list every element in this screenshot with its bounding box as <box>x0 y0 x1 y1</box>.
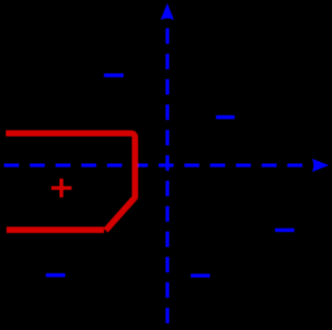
minus sign, first quadrant <box>216 115 235 119</box>
red plus sign <box>51 179 71 198</box>
red contour: top line, corner, vertical, diagonal <box>6 133 135 230</box>
real (horizontal) axis, dashed <box>4 164 306 168</box>
minus sign, fourth quadrant right <box>275 228 294 232</box>
red contour: bottom line <box>7 227 105 233</box>
minus sign, second quadrant <box>104 73 124 77</box>
arrowhead, right of horizontal axis <box>312 159 329 172</box>
arrowhead, top of vertical axis <box>161 3 174 20</box>
minus sign, third quadrant <box>46 273 65 277</box>
imaginary (vertical) axis, dashed <box>166 28 170 327</box>
minus sign, fourth quadrant lower <box>191 274 210 278</box>
